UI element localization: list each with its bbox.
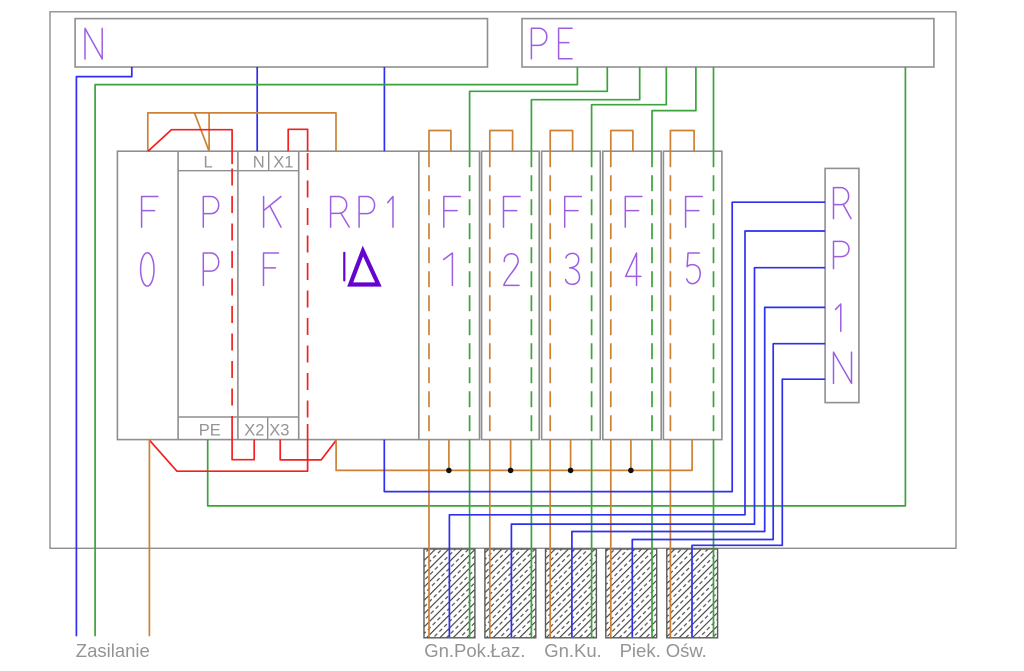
wire red X2 link <box>232 428 254 460</box>
svg-text:Piek.: Piek. <box>620 640 661 661</box>
wire L jumper F3 <box>550 131 572 152</box>
wire PE right drop <box>208 67 906 506</box>
wire L jumper F5 <box>670 131 694 152</box>
label F5 <box>686 197 703 228</box>
label PP <box>203 197 218 228</box>
breaker F4 box <box>603 151 661 439</box>
junction dot F4 <box>628 468 634 474</box>
wire L feed top <box>148 113 336 151</box>
divider F0|PP <box>177 151 179 439</box>
N busbar box <box>75 19 487 67</box>
junction dot F3 <box>568 468 574 474</box>
svg-text:N: N <box>253 154 265 172</box>
junction dot F1 <box>446 468 452 474</box>
wire PE supply <box>95 67 577 636</box>
wire PE to F2 <box>531 67 639 151</box>
wire PE to F3 <box>592 67 667 151</box>
breaker F5 pole dashed orange <box>669 151 671 439</box>
breaker F1 pole dashed orange <box>428 151 430 439</box>
wire N RP1 out <box>384 202 825 491</box>
breaker F1 pole dashed green <box>469 151 471 439</box>
breaker F2 box <box>482 151 540 439</box>
wire L drop circuit 3 <box>549 440 551 637</box>
terminal footer row <box>178 416 299 418</box>
wire N circuit 5 <box>692 379 825 637</box>
wire N circuit 1 <box>449 231 825 637</box>
wire PE to F4 <box>652 67 696 151</box>
breaker F4 pole dashed orange <box>610 151 612 439</box>
breaker F4 pole dashed green <box>651 151 653 439</box>
label F4 <box>625 197 642 228</box>
wire PE drop circuit 3 <box>591 440 593 637</box>
svg-text:Gn.Pok.: Gn.Pok. <box>424 640 491 661</box>
breaker F2 pole dashed orange <box>489 151 491 439</box>
breaker F5 box <box>663 151 722 439</box>
wire L supply drop <box>148 440 150 637</box>
label F2 <box>504 197 521 228</box>
wire PE drop circuit 5 <box>713 440 715 637</box>
label KF <box>264 197 281 228</box>
label PE busbar <box>531 28 546 59</box>
divider PP|KF <box>237 151 239 439</box>
wire N to main N terminal <box>256 67 258 151</box>
wire N to RP1 top <box>383 67 385 151</box>
wire N circuit 3 <box>572 307 825 637</box>
wire PE drop circuit 2 <box>530 440 532 637</box>
consumer circuit box Gn.Ku. <box>546 549 597 638</box>
divider KF|RP1 <box>298 151 300 439</box>
junction dot F2 <box>508 468 514 474</box>
wire L jumper F2 <box>490 131 513 152</box>
svg-text:Ośw.: Ośw. <box>666 640 707 661</box>
label I-delta <box>343 253 345 281</box>
red dashed link right <box>307 153 309 424</box>
breaker F1 box <box>419 151 480 439</box>
wire L drop circuit 4 <box>610 440 612 637</box>
wire L drop circuit 1 <box>428 440 430 637</box>
wire red F0 to L <box>148 130 232 164</box>
label F1 <box>444 197 461 228</box>
wire L terminal stub <box>208 113 210 151</box>
wire red X3 to RP1 <box>280 440 336 460</box>
label N busbar <box>85 28 102 59</box>
consumer circuit box Ośw. <box>667 549 718 638</box>
PE busbar box <box>522 19 934 67</box>
wire PE to F5 <box>713 67 715 151</box>
wire L tap F4 <box>630 440 632 471</box>
RP1N busbar box <box>825 168 859 402</box>
main switch box <box>117 151 418 439</box>
svg-text:X3: X3 <box>269 421 289 439</box>
label RP1N vertical <box>834 188 852 219</box>
svg-text:L: L <box>204 154 213 172</box>
wire L tap F1 <box>448 440 450 471</box>
label F3 <box>565 197 582 228</box>
svg-text:Łaz.: Łaz. <box>490 640 525 661</box>
wire PE drop circuit 4 <box>651 440 653 637</box>
wire red X1 link <box>288 129 307 151</box>
red dashed link left <box>231 169 233 429</box>
label RP1 <box>331 197 350 228</box>
breaker F3 pole dashed green <box>591 151 593 439</box>
breaker F5 pole dashed green <box>713 151 715 439</box>
wire N supply <box>76 67 131 636</box>
wire L drop circuit 2 <box>489 440 491 637</box>
wire L bus <box>336 440 692 471</box>
wire N circuit 4 <box>632 344 825 637</box>
consumer circuit box Łaz. <box>485 549 536 638</box>
wire L jumper F4 <box>611 131 633 152</box>
wire L jumper F1 <box>429 131 451 152</box>
breaker F3 pole dashed orange <box>549 151 551 439</box>
svg-text:Zasilanie: Zasilanie <box>76 640 150 661</box>
svg-text:X2: X2 <box>244 421 264 439</box>
consumer circuit box Piek. <box>606 549 657 638</box>
svg-text:Gn.Ku.: Gn.Ku. <box>544 640 602 661</box>
svg-text:PE: PE <box>199 421 221 439</box>
consumer circuit box Gn.Pok. <box>424 549 475 638</box>
label F0 <box>142 197 158 228</box>
wire PE drop circuit 1 <box>469 440 471 637</box>
wire L tap F3 <box>570 440 572 471</box>
wire red F0 bottom link <box>150 424 308 471</box>
wire L tap F2 <box>510 440 512 471</box>
wire PE to F1 <box>470 67 608 151</box>
breaker F3 box <box>542 151 601 439</box>
svg-text:X1: X1 <box>273 154 293 172</box>
wire L feed diagonal <box>195 113 210 151</box>
terminal header row <box>178 170 299 172</box>
wire L drop circuit 5 <box>669 440 671 637</box>
wire N circuit 2 <box>511 268 825 637</box>
outer frame <box>50 12 956 549</box>
breaker F2 pole dashed green <box>530 151 532 439</box>
